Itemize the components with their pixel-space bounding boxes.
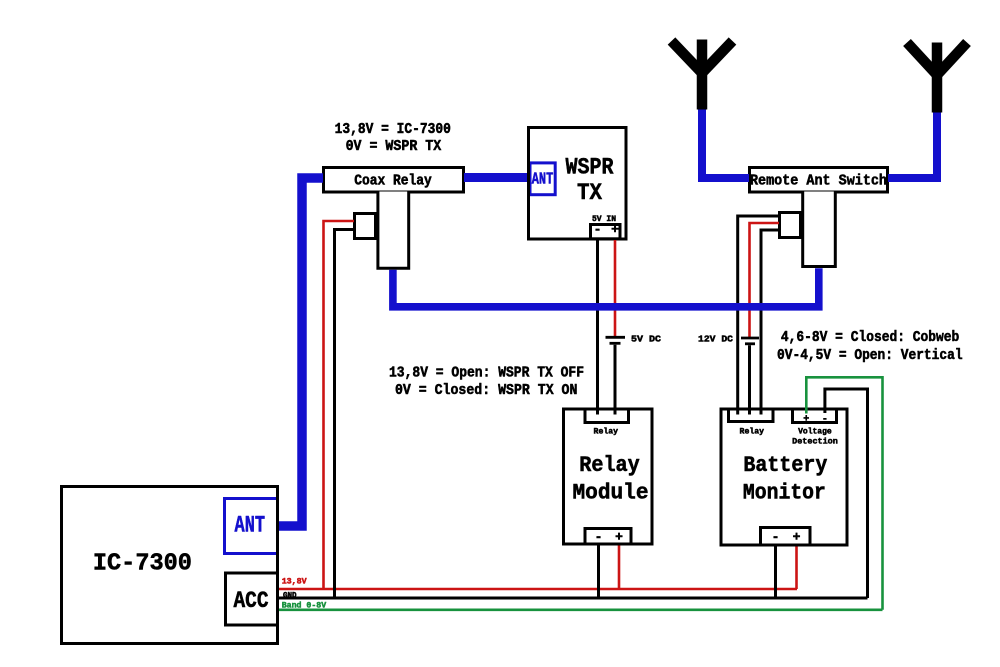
wire red Coax Relay coil bbox=[324, 221, 355, 589]
svg-text:GND: GND bbox=[283, 590, 297, 600]
svg-text:13,8V: 13,8V bbox=[282, 577, 308, 587]
svg-text:Relay: Relay bbox=[594, 427, 619, 437]
svg-text:13,8V = IC-7300: 13,8V = IC-7300 bbox=[335, 122, 451, 138]
wire black battery B1 to Relay Module bbox=[614, 345, 617, 415]
wire black Coax Relay coil bbox=[335, 230, 355, 599]
wire red Remote Ant Switch coil bbox=[750, 223, 780, 337]
svg-text:12V DC: 12V DC bbox=[698, 334, 733, 345]
wire black Remote Ant Switch coil B bbox=[761, 230, 779, 415]
svg-text:Battery: Battery bbox=[743, 453, 827, 478]
svg-text:5V DC: 5V DC bbox=[631, 334, 661, 345]
svg-text:-: - bbox=[822, 414, 828, 425]
wire blue right antenna feed bbox=[888, 111, 937, 178]
wire black GND bus bbox=[279, 597, 868, 600]
Coax Relay stem bbox=[378, 192, 409, 269]
svg-text:ANT: ANT bbox=[532, 170, 554, 189]
battery B1 5V DC bbox=[606, 336, 626, 339]
wire black Battery Monitor minus bbox=[774, 547, 777, 599]
svg-text:0V = WSPR TX: 0V = WSPR TX bbox=[346, 139, 442, 155]
WSPR TX box bbox=[529, 128, 627, 240]
Relay Module output terminal bbox=[585, 529, 631, 545]
wire black Voltage Detection minus bbox=[825, 389, 868, 598]
wire green Voltage Detection plus bbox=[806, 377, 882, 610]
IC-7300 ACC port bbox=[226, 573, 278, 625]
wire blue IC-7300 ANT to Coax Relay bbox=[279, 178, 323, 526]
svg-text:Relay: Relay bbox=[740, 427, 765, 437]
svg-text:Band 0-8V: Band 0-8V bbox=[282, 601, 327, 611]
svg-text:Voltage: Voltage bbox=[798, 427, 832, 437]
svg-text:TX: TX bbox=[577, 180, 603, 207]
svg-text:IC-7300: IC-7300 bbox=[93, 551, 192, 578]
svg-text:Coax Relay: Coax Relay bbox=[354, 174, 432, 190]
wire green Band 0-8V bus bbox=[279, 608, 883, 611]
Battery Monitor output terminal bbox=[761, 528, 811, 546]
wire red 13,8V bus bbox=[279, 588, 797, 591]
Remote Ant Switch stem bbox=[803, 192, 836, 267]
Battery Monitor relay terminal bbox=[729, 409, 774, 422]
svg-text:+: + bbox=[793, 530, 801, 545]
WSPR TX ANT port bbox=[530, 163, 555, 195]
wire black battery B2 to Battery Monitor relay bbox=[748, 345, 751, 414]
Battery Monitor voltage detection terminal bbox=[793, 409, 837, 423]
Remote Ant Switch coil box bbox=[780, 213, 801, 238]
antenna right bbox=[907, 43, 967, 113]
Remote Ant Switch box bbox=[750, 168, 888, 193]
battery B2 12V DC bbox=[741, 337, 759, 340]
svg-text:0V-4,5V = Open: Vertical: 0V-4,5V = Open: Vertical bbox=[777, 348, 963, 364]
svg-text:WSPR: WSPR bbox=[566, 154, 615, 181]
svg-text:-: - bbox=[772, 530, 780, 545]
wire black Relay Module minus bbox=[597, 546, 600, 599]
svg-text:ACC: ACC bbox=[234, 588, 269, 614]
svg-text:Monitor: Monitor bbox=[743, 480, 826, 505]
wire blue Coax Relay to WSPR TX ANT bbox=[464, 173, 527, 182]
Battery Monitor box bbox=[721, 409, 847, 545]
wire red WSPR TX 5V plus bbox=[614, 240, 617, 337]
svg-text:ANT: ANT bbox=[235, 512, 266, 538]
wire red Battery Monitor plus bbox=[795, 547, 798, 590]
wire black Remote Ant Switch coil A bbox=[738, 216, 779, 415]
svg-text:+: + bbox=[803, 414, 809, 425]
wire black WSPR TX 5V minus bbox=[596, 240, 599, 415]
svg-text:-: - bbox=[594, 222, 602, 237]
svg-text:Remote Ant Switch: Remote Ant Switch bbox=[750, 174, 887, 190]
Relay Module relay terminal bbox=[585, 409, 629, 423]
wire blue coax run Coax Relay stem to Remote Ant Switch stem bbox=[393, 268, 819, 307]
wire blue left antenna feed bbox=[702, 108, 749, 178]
Relay Module box bbox=[564, 409, 653, 544]
svg-text:Detection: Detection bbox=[792, 437, 838, 447]
Coax Relay box bbox=[324, 168, 464, 193]
IC-7300 ANT port bbox=[225, 499, 278, 554]
svg-text:+: + bbox=[615, 530, 623, 545]
wire red Relay Module plus bbox=[618, 546, 621, 590]
svg-text:Module: Module bbox=[573, 480, 649, 505]
Coax Relay coil box bbox=[355, 214, 376, 239]
svg-text:Relay: Relay bbox=[579, 453, 640, 478]
svg-text:13,8V = Open: WSPR TX OFF: 13,8V = Open: WSPR TX OFF bbox=[389, 366, 584, 382]
antenna left bbox=[672, 40, 733, 110]
svg-text:-: - bbox=[595, 530, 603, 545]
svg-text:+: + bbox=[611, 222, 619, 237]
IC-7300 box bbox=[62, 487, 278, 644]
svg-text:0V = Closed: WSPR TX ON: 0V = Closed: WSPR TX ON bbox=[395, 383, 578, 399]
svg-text:4,6-8V = Closed: Cobweb: 4,6-8V = Closed: Cobweb bbox=[781, 330, 960, 346]
